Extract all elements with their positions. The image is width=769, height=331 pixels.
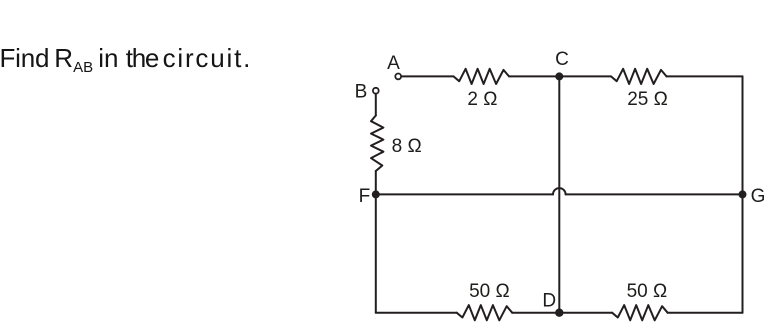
svg-text:50 Ω: 50 Ω	[469, 281, 510, 302]
wire B lead down to 8-ohm resistor	[375, 94, 377, 116]
wire resistor to C to 25-ohm	[509, 75, 611, 77]
svg-text:2 Ω: 2 Ω	[467, 89, 497, 110]
node G junction dot	[739, 190, 747, 198]
node D junction dot	[555, 309, 563, 317]
svg-text:50 Ω: 50 Ω	[627, 281, 668, 302]
question text	[0, 45, 1, 75]
svg-text:G: G	[751, 186, 766, 207]
wire 50-ohm right to bottom-right corner	[668, 312, 743, 314]
resistor 8 ohm between B and F	[371, 116, 383, 172]
svg-text:C: C	[555, 49, 569, 70]
svg-text:25 Ω: 25 Ω	[627, 89, 668, 110]
wire 8-ohm to F down to bottom-left corner	[375, 171, 377, 313]
wire C down to D (vertical)	[558, 76, 560, 312]
svg-text:B: B	[355, 82, 368, 103]
svg-text:D: D	[542, 291, 556, 312]
wire between 50-ohm left, node D, and 50-ohm right	[512, 312, 612, 314]
svg-text:F: F	[359, 186, 371, 207]
node C junction dot	[555, 72, 563, 80]
wire bottom-left corner to 50-ohm left resistor	[376, 312, 457, 314]
resistor R 2ohm between A and C	[454, 69, 510, 84]
wire hop to G	[566, 193, 743, 195]
wire A lead to 2-ohm resistor	[402, 75, 454, 77]
node F junction dot	[372, 190, 380, 198]
resistor 25 ohm between C and top-right corner	[611, 69, 667, 84]
terminal A open circle	[395, 74, 401, 80]
terminal B open circle	[373, 88, 379, 94]
wire F to crossover hop	[376, 193, 553, 195]
svg-text:8 Ω: 8 Ω	[392, 136, 422, 157]
resistor 50 ohm right (bottom)	[612, 305, 668, 320]
wire right edge top-right corner down through G to bottom-right corner	[742, 76, 744, 312]
svg-text:A: A	[387, 53, 400, 74]
resistor 50 ohm left (bottom)	[457, 305, 513, 320]
wire 25-ohm to top-right corner	[667, 75, 743, 77]
wire crossover hop over C-D wire	[553, 188, 566, 194]
